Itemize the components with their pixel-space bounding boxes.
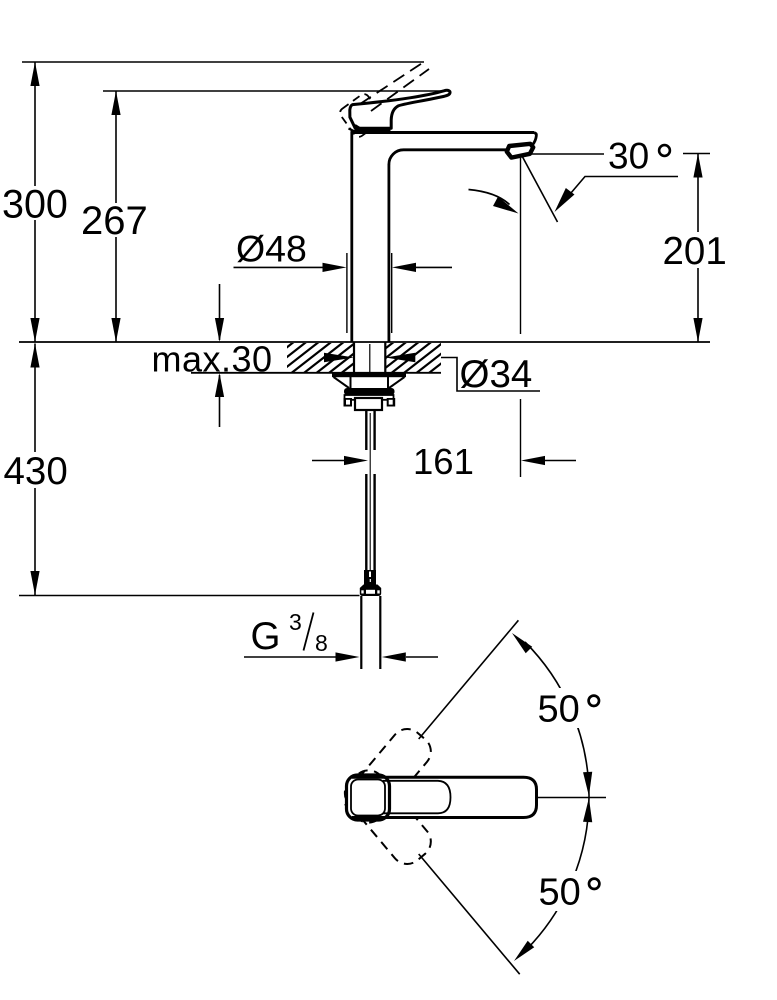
faucet inner corner radius [389,150,404,165]
counter hatching [252,341,483,375]
faucet spout underside [404,148,507,151]
top view: handle inner body line [383,781,451,814]
dimension Ø48 right arrow [392,263,452,272]
faucet body top edge [351,131,535,134]
svg-text:3: 3 [289,609,302,635]
locknut upper rect [345,395,394,400]
dimension Ø34 right arrowhead [385,353,415,363]
locknut left ear [344,398,353,407]
top view: dashed handle down position [338,764,437,871]
dimension 201 top tick [683,153,710,155]
dimension 161 right arrow [521,456,576,465]
counter top surface line [19,341,710,343]
svg-text:G: G [251,615,281,658]
wire: top reference line (handle max height) [22,61,424,63]
supply hose centerline [369,413,371,592]
supply hose upper segment [366,410,374,450]
locknut right ear [387,398,396,407]
dimension 161 left arrow [312,456,368,465]
label 50 deg lower [534,871,608,914]
counter bottom surface line [191,372,441,374]
30 deg leader with arrow [550,177,678,216]
swivel arc arrow near spout [469,190,522,219]
svg-text:Ø48: Ø48 [236,228,307,270]
locknut body [355,398,382,410]
handle base black bar [355,127,391,134]
label max.30 [152,339,273,380]
dimension Ø48 witness ticks [347,253,392,333]
svg-text:300: 300 [2,183,68,227]
svg-text:161: 161 [413,441,474,482]
arc end arrow bottom [511,941,534,964]
top view: dashed handle up position [338,722,437,829]
top view: centerline [537,797,606,799]
hose end reference line [19,595,360,597]
top view: handle white fill [347,775,537,820]
arc center arrows at zero line [583,772,593,822]
svg-text:8: 8 [315,630,328,656]
dimension 430 vertical line [30,344,39,596]
dimension G3/8 right arrow [382,652,438,661]
label Ø34 [460,353,533,396]
dimension max.30 leader top [215,284,224,342]
water stream vertical reference lower [520,399,522,477]
dimension Ø48 left arrow [234,263,347,272]
label 430 [2,450,70,493]
handle hinge wedge [349,125,367,133]
label 267 [80,199,152,243]
top view: 50 deg lower diagonal [419,854,520,974]
svg-text:Ø34: Ø34 [460,353,533,396]
handle raised position dashed lever lines [360,63,429,112]
label 30 deg [604,136,678,177]
svg-text:50: 50 [538,689,580,731]
faucet spout right end curve [533,133,537,145]
dimension 267 vertical line [111,91,120,342]
svg-text:max.30: max.30 [152,339,273,380]
supply hose lower segment [366,474,374,571]
label 50 deg upper [532,688,606,731]
handle raised position dashed boss [338,92,385,139]
faucet body column right edge [387,164,390,342]
top view: pivot boss outer [347,775,390,820]
top view: swing arc [525,642,589,949]
mounting shank right edge [384,342,386,373]
cone washer trapezoid [334,377,405,388]
dimension max.30 leader bottom [215,373,224,427]
dimension Ø34 left arrowhead [324,353,354,363]
seal black band [344,388,395,395]
G3/8 threaded tube [361,596,380,669]
dimension G3/8 left arrow [244,652,360,661]
label G 3/8 [251,609,328,658]
dimension 201 vertical line [693,154,702,343]
dimension 300 vertical line [30,62,39,342]
top view: 50 deg upper diagonal [419,620,519,739]
washer bar under counter [332,373,406,377]
Ø34 leader [441,358,540,392]
aerator tip [507,144,533,158]
spout angle 30 deg diagonal [522,155,558,222]
hose end nut [360,585,381,597]
top view: handle outer outline [352,777,537,817]
handle lever side view [350,90,450,128]
arc end arrow top [509,630,532,653]
svg-text:30: 30 [608,136,649,177]
faucet body column left edge [350,132,353,342]
svg-text:201: 201 [663,230,727,273]
label 161 [413,441,474,482]
svg-text:50: 50 [539,872,581,914]
wire: spout height reference line [103,90,443,92]
label 201 [660,230,730,273]
mounting shank left edge [353,342,355,373]
svg-text:430: 430 [4,450,68,493]
label Ø48 [236,228,307,270]
30 deg reference horizontal line [523,153,607,155]
label 300 [1,183,69,227]
hose crimp sleeve [364,570,376,585]
top view: pivot boss inner [351,780,385,816]
water stream vertical reference upper [520,158,522,334]
shank centerline [369,344,371,372]
svg-text:267: 267 [81,199,148,243]
